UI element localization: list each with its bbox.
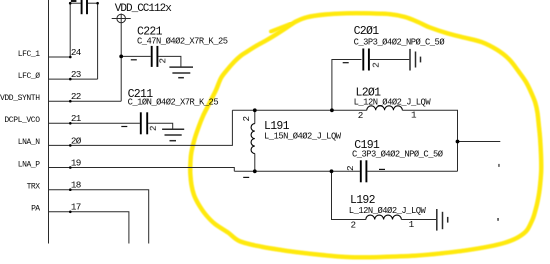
svg-text:LFC_Ø: LFC_Ø [18,72,40,81]
svg-text:2Ø: 2Ø [71,135,82,146]
inductor L201 humps [367,106,403,110]
wire riser pin 23 to cap [97,3,99,79]
svg-text:L_12N_Ø4Ø2_J_LQW: L_12N_Ø4Ø2_J_LQW [354,98,432,108]
svg-text:24: 24 [71,47,82,58]
svg-text:17: 17 [71,202,81,213]
svg-text:2: 2 [345,165,356,171]
svg-text:22: 22 [71,91,81,102]
svg-text:2: 2 [351,219,357,230]
svg-text:21: 21 [71,113,82,124]
wire pin 19 LNA_P with jog [49,168,235,172]
ground rotated after L192 [437,209,448,231]
svg-text:C2Ø1: C2Ø1 [354,25,380,38]
top capacitor label fragment [71,0,77,2]
ground after C211 [162,129,184,140]
svg-text:LNA_N: LNA_N [18,138,40,147]
svg-text:C_47N_Ø4Ø2_X7R_K_25: C_47N_Ø4Ø2_X7R_K_25 [137,37,228,47]
wire top capacitor left [70,2,81,4]
pin label 1 C191 [379,169,385,170]
stray mark right low [497,218,499,221]
wire pin 20 LNA_N [49,110,233,145]
wire bottom rail right [367,170,457,172]
svg-text:PA: PA [31,205,40,214]
svg-text:2: 2 [241,116,252,122]
wire output stub [458,141,501,143]
yellow highlighter loop annotation [190,13,541,257]
wire pin 23 LFC_0 [49,78,98,80]
wire C201 to ground [370,59,409,61]
pin label 1 C221 [131,59,137,60]
svg-text:18: 18 [71,180,81,191]
junction node L192 riser [330,169,334,173]
junction node C201 riser [330,108,334,112]
wire bottom rail left [234,170,360,172]
junction node output stub [456,140,460,144]
capacitor C201 plates [363,49,369,71]
pin label 1 C211 [121,126,127,127]
ground rotated after C201 [410,49,421,71]
svg-text:C_3P3_Ø4Ø2_NPØ_C_5Ø: C_3P3_Ø4Ø2_NPØ_C_5Ø [352,149,444,159]
svg-text:2: 2 [157,58,168,64]
svg-text:C_3P3_Ø4Ø2_NPØ_C_5Ø: C_3P3_Ø4Ø2_NPØ_C_5Ø [354,37,446,47]
svg-text:L_12N_Ø4Ø2_J_LQW: L_12N_Ø4Ø2_J_LQW [349,206,427,216]
svg-text:2: 2 [370,62,381,68]
svg-text:VDD_SYNTH: VDD_SYNTH [0,94,40,103]
svg-text:2: 2 [358,110,364,121]
wire C221 branch [121,55,151,57]
wire riser pin 24 to cap [69,3,71,57]
ground after C221 [169,67,193,78]
IC U1 body edge [48,0,50,244]
wire pin 22 VDD_SYNTH [49,100,122,102]
pin end dots [69,2,99,213]
svg-text:2: 2 [148,125,159,131]
capacitor C191 plates [361,160,367,182]
svg-text:1: 1 [409,219,415,230]
power symbol VDD_CC112x [112,14,131,23]
svg-text:LFC_1: LFC_1 [18,50,40,59]
wire L192 riser [332,171,366,219]
wire pin 21 DCPL_VCO [49,122,140,124]
junction node L191 bottom [253,169,257,173]
wire C221 to ground [158,56,181,67]
wire top capacitor right [88,2,98,4]
junction node VDD/C221 [119,55,123,59]
inductor L191 vertical [251,110,255,171]
svg-text:19: 19 [71,157,81,168]
wire C201 riser [332,60,362,111]
svg-text:VDD_CC112x: VDD_CC112x [115,3,172,15]
svg-text:DCPL_VCO: DCPL_VCO [4,116,40,125]
wire C211 to ground [148,123,173,129]
svg-text:LNA_P: LNA_P [18,160,40,169]
wire pin 18 TRX [49,190,149,244]
capacitor C211 plates [141,112,147,134]
stray mark right mid [498,164,500,167]
wire VDD vertical [120,14,122,102]
svg-text:L_15N_Ø4Ø2_J_LQW: L_15N_Ø4Ø2_J_LQW [264,131,342,141]
svg-text:C_1ØN_Ø4Ø2_X7R_K_25: C_1ØN_Ø4Ø2_X7R_K_25 [128,98,219,108]
svg-text:23: 23 [71,69,81,80]
junction node L191 top [253,108,257,112]
yellow pen hook overlap [271,24,291,32]
wire pin 24 LFC_1 [49,56,71,58]
capacitor C221 plates [152,46,158,67]
wire top rail right [402,110,457,171]
top capacitor plates [82,0,87,14]
pin label 1 C201 [343,62,349,63]
svg-text:1: 1 [411,110,417,121]
svg-text:TRX: TRX [27,183,41,192]
wire top rail left [232,109,366,111]
wire pin 17 PA [49,212,129,244]
pin label 1 L191 [243,177,249,178]
wire L192 to ground [401,219,436,221]
inductor L192 humps [366,215,402,219]
